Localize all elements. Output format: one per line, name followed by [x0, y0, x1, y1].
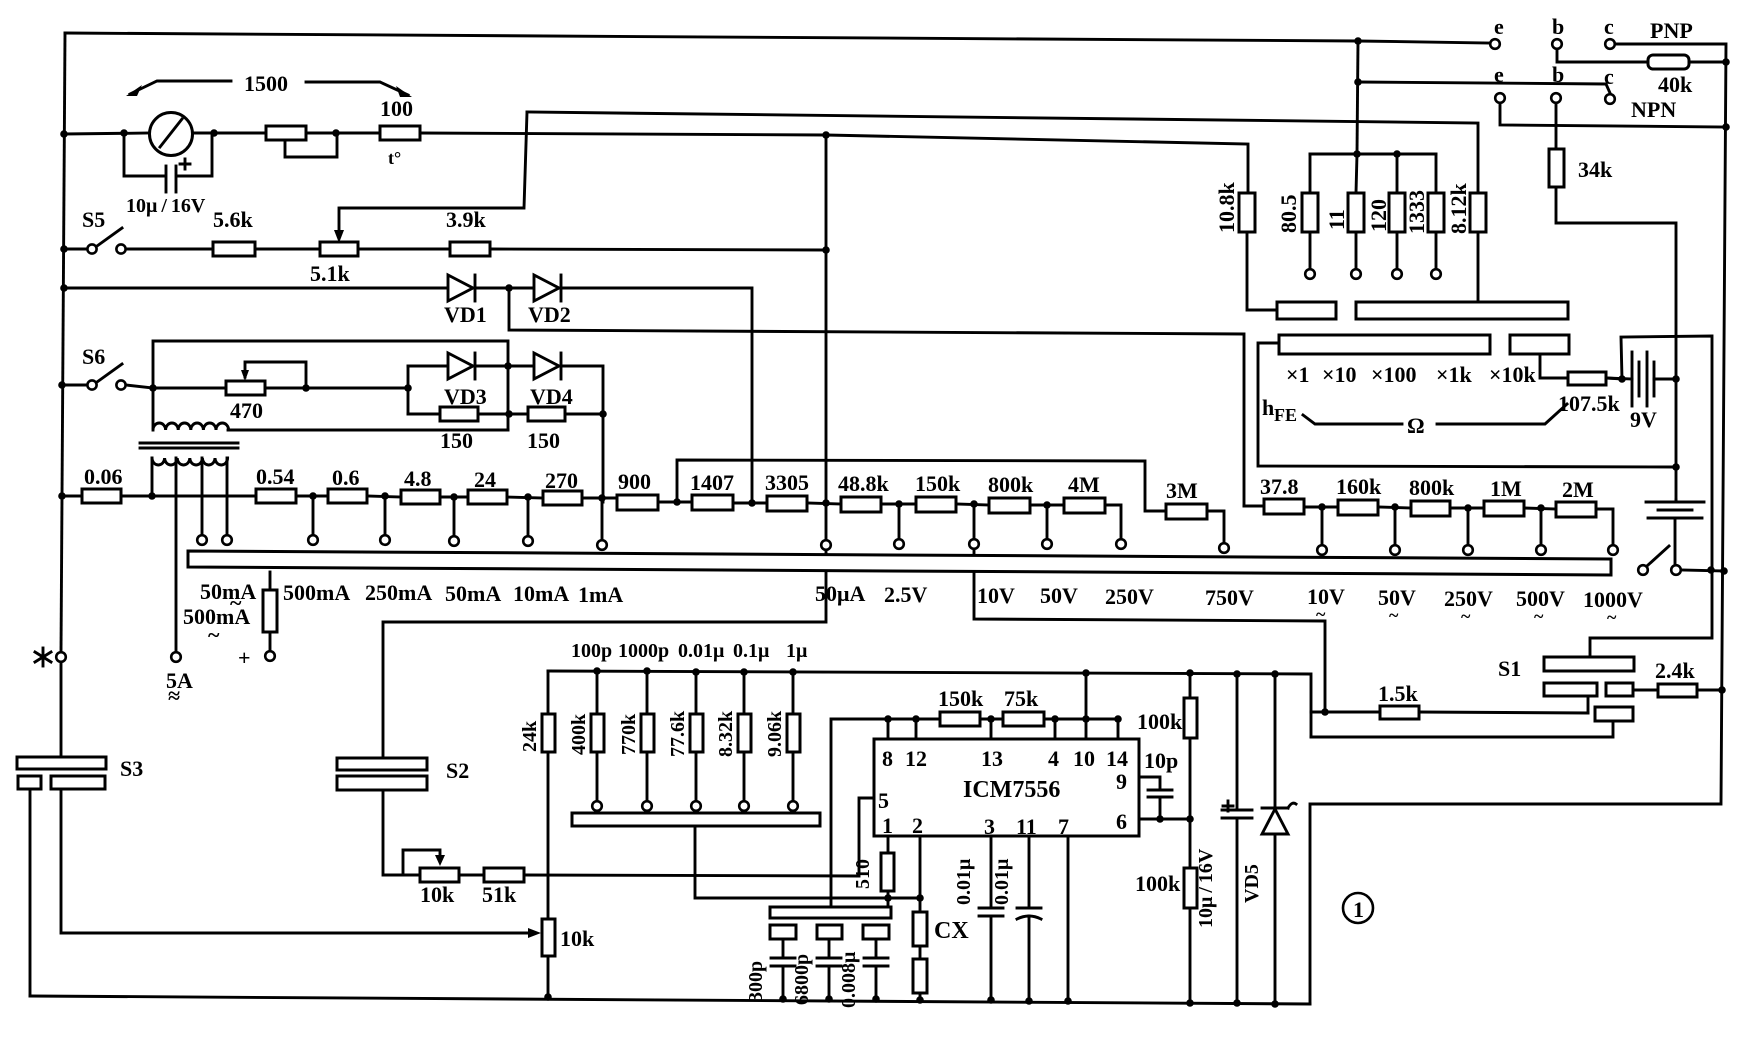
wire pin10 to rail: [1085, 673, 1088, 719]
resistor 1M: [1484, 476, 1556, 516]
node PNP socket e: [1490, 14, 1504, 49]
svg-text:ICM7556: ICM7556: [963, 777, 1060, 803]
svg-text:e: e: [1494, 62, 1504, 87]
label 500mA-AC: [183, 590, 250, 647]
node 250mA tap: [380, 496, 390, 545]
svg-text:0.54: 0.54: [256, 464, 295, 489]
svg-text:9V: 9V: [1630, 407, 1657, 432]
label 1500 bracket: [126, 71, 412, 97]
resistor 77.6k: [667, 672, 703, 811]
svg-text:150: 150: [527, 428, 560, 453]
svg-text:1000p: 1000p: [618, 640, 669, 662]
switch rotary common: [1638, 546, 1728, 575]
resistor 4.8: [401, 466, 468, 504]
resistor 48.8k: [838, 471, 916, 512]
svg-text:b: b: [1552, 14, 1564, 39]
label ACV range row: [1307, 584, 1643, 627]
svg-text:S1: S1: [1498, 656, 1521, 681]
svg-text:500mA: 500mA: [283, 580, 350, 605]
node 500mA tap: [308, 496, 318, 545]
svg-text:t°: t°: [388, 148, 401, 168]
svg-text:~: ~: [1534, 606, 1544, 626]
svg-text:×10: ×10: [1322, 362, 1357, 387]
svg-text:250mA: 250mA: [365, 580, 432, 605]
resistor 10.8k: [1214, 182, 1277, 311]
svg-text:150: 150: [440, 428, 473, 453]
contact CX socket pin2: [913, 836, 969, 1000]
svg-text:4M: 4M: [1068, 472, 1100, 497]
label cap range row: [571, 640, 808, 662]
resistor 100 t-deg: [380, 96, 420, 168]
svg-text:150k: 150k: [915, 471, 961, 496]
svg-text:VD5: VD5: [1241, 864, 1263, 903]
svg-text:8.12k: 8.12k: [1446, 183, 1471, 235]
svg-text:14: 14: [1106, 746, 1128, 771]
svg-text:770k: 770k: [618, 713, 640, 755]
wire pin8 to CX bar: [831, 719, 888, 907]
resistor 120: [1366, 154, 1405, 279]
svg-text:100p: 100p: [571, 640, 612, 662]
transformer T1 core: [140, 443, 238, 448]
transformer T1 secondary: [152, 458, 228, 465]
node top pin bus junctions: [884, 715, 1122, 723]
svg-text:FE: FE: [1274, 405, 1297, 425]
svg-text:10: 10: [1073, 746, 1095, 771]
diode VD5: [1241, 674, 1296, 1004]
resistor 800k: [988, 472, 1064, 513]
capacitor 0.01u pin11: [991, 836, 1041, 1001]
contact 6800p: [817, 925, 842, 958]
resistor 24k: [519, 671, 555, 919]
node timing rail junctions: [593, 667, 1279, 678]
resistor 150 shunt VD3: [408, 366, 528, 453]
svg-text:11: 11: [1324, 209, 1349, 230]
svg-text:1407: 1407: [690, 470, 734, 495]
resistor 3.9k: [446, 207, 830, 256]
svg-text:0.01μ: 0.01μ: [953, 858, 975, 905]
resistor 4M: [1064, 472, 1121, 539]
resistor 0.06: [58, 464, 256, 503]
switch S5: [60, 207, 213, 254]
svg-text:~: ~: [1607, 607, 1617, 627]
resistor 37.8: [1244, 474, 1338, 514]
resistor 510: [852, 836, 894, 907]
capacitor 300p: [745, 958, 795, 1002]
resistor 9.06k: [764, 672, 800, 811]
svg-text:5.1k: 5.1k: [310, 261, 351, 286]
resistor 3M: [1166, 478, 1224, 543]
node PNP socket c: [1604, 14, 1615, 49]
capacitor 0.01u pin3: [953, 836, 1003, 1000]
svg-text:80.5: 80.5: [1276, 195, 1301, 234]
svg-text:150k: 150k: [938, 686, 984, 711]
rotary wafer S1 mid-left: [1544, 683, 1597, 713]
svg-text:~: ~: [1389, 605, 1399, 625]
rotary wafer cap select: [572, 813, 920, 902]
resistor 500mA shunt vertical: [238, 572, 277, 670]
svg-text:c: c: [1604, 64, 1614, 89]
capacitor 10u/16V supply: [1195, 674, 1252, 1003]
diode VD2: [528, 275, 752, 503]
svg-text:10V: 10V: [1307, 584, 1345, 609]
resistor 107.5k: [1558, 372, 1626, 416]
wire S3 to 10k wiper: [61, 789, 541, 938]
svg-text:1M: 1M: [1490, 476, 1522, 501]
resistor 900: [617, 469, 692, 510]
svg-text:100: 100: [380, 96, 413, 121]
resistor 1.5k: [1321, 681, 1588, 719]
wire S3 to bottom rail: [29, 789, 32, 996]
resistor 270: [543, 468, 617, 505]
contact 0.008u: [863, 925, 889, 958]
svg-text:470: 470: [230, 398, 263, 423]
svg-text:10mA: 10mA: [513, 581, 569, 606]
wire bottom rail: [30, 996, 1310, 1004]
svg-text:10μ / 16V: 10μ / 16V: [126, 195, 206, 217]
svg-text:120: 120: [1366, 199, 1391, 232]
svg-text:0.008μ: 0.008μ: [838, 951, 860, 1008]
wire pin7 to rail: [1067, 836, 1070, 1001]
svg-text:S5: S5: [82, 207, 105, 232]
resistor 11: [1324, 154, 1364, 279]
resistor 100k lower: [1135, 819, 1197, 1003]
potentiometer 470: [153, 362, 412, 423]
wire U1 top pin bus: [888, 719, 1118, 739]
wire secondary tap2 to 5A: [171, 458, 181, 662]
resistor 150k timing: [938, 686, 984, 726]
svg-text:b: b: [1552, 62, 1564, 87]
svg-text:VD3: VD3: [444, 384, 487, 409]
svg-text:2M: 2M: [1562, 477, 1594, 502]
wire meter row: [64, 133, 1248, 193]
svg-text:10V: 10V: [977, 583, 1015, 608]
svg-text:1μ: 1μ: [786, 640, 808, 662]
node NPN socket b: [1551, 62, 1564, 149]
svg-text:9.06k: 9.06k: [764, 710, 786, 757]
resistor 5.6k: [213, 207, 320, 256]
wire secondary tap1: [148, 458, 156, 500]
diode VD4: [530, 353, 603, 502]
rotary wafer S1 top: [1498, 656, 1634, 681]
resistor 770k: [618, 671, 654, 811]
svg-text:×1: ×1: [1286, 362, 1310, 387]
transformer T1 primary: [153, 423, 508, 430]
svg-text:750V: 750V: [1205, 585, 1254, 610]
svg-text:0.1μ: 0.1μ: [733, 640, 770, 662]
potentiometer 5.1k: [310, 242, 450, 286]
node 50mA tap: [449, 497, 459, 546]
resistor 400k: [568, 671, 604, 811]
label 5A terminal: [166, 668, 193, 708]
svg-text:34k: 34k: [1578, 157, 1613, 182]
node 250VAC tap: [1463, 508, 1473, 555]
resistor 51k: [482, 798, 874, 907]
svg-text:5.6k: 5.6k: [213, 207, 254, 232]
node 10VAC tap: [1317, 507, 1327, 555]
svg-text:+: +: [238, 645, 251, 670]
svg-text:×100: ×100: [1371, 362, 1417, 387]
svg-text:50μA: 50μA: [815, 581, 865, 606]
svg-text:2.4k: 2.4k: [1655, 658, 1696, 683]
rotary wafer bank left: [1277, 302, 1336, 319]
wire line-A to 8.12k: [341, 112, 1478, 208]
svg-text:≈: ≈: [168, 683, 180, 708]
svg-text:VD1: VD1: [444, 302, 487, 327]
wire secondary tap4: [222, 458, 232, 545]
rotary wafer bank right: [1356, 302, 1568, 319]
wire timing rail: [548, 671, 1325, 737]
svg-text:37.8: 37.8: [1260, 474, 1299, 499]
label 10u/16V: [126, 195, 206, 217]
resistor zero-adjust rheostat: [266, 126, 337, 157]
rotary wafer ohms small: [1510, 335, 1569, 378]
resistor 0.6: [328, 465, 401, 503]
label NPN: [1631, 97, 1676, 122]
resistor 800k AC: [1409, 475, 1484, 516]
wire VD1 row from left border: [60, 284, 448, 292]
svg-text:×1k: ×1k: [1436, 362, 1473, 387]
resistor 100k upper: [1137, 673, 1197, 819]
node e-b junction vertical: [1354, 37, 1362, 154]
resistor 34k: [1549, 149, 1680, 500]
switch S6: [58, 344, 157, 392]
rotary wafer S1 bottom: [1311, 707, 1633, 737]
svg-text:c: c: [1604, 14, 1614, 39]
node 500VAC tap: [1536, 508, 1546, 555]
svg-text:13: 13: [981, 746, 1003, 771]
label multiplier row: [1286, 362, 1537, 387]
svg-text:100k: 100k: [1137, 709, 1183, 734]
svg-text:1mA: 1mA: [578, 582, 623, 607]
resistor 75k timing: [1003, 686, 1044, 726]
node bottom rail junctions: [544, 993, 1279, 1008]
svg-text:24k: 24k: [519, 720, 541, 752]
svg-text:1333: 1333: [1404, 190, 1429, 234]
wire right border: [1310, 44, 1726, 1004]
resistor 1333: [1404, 154, 1444, 279]
node NPN socket e: [1494, 62, 1730, 131]
svg-text:3.9k: 3.9k: [446, 207, 487, 232]
svg-text:50V: 50V: [1040, 583, 1078, 608]
svg-text:VD4: VD4: [530, 384, 573, 409]
node meter row junctions: [60, 129, 830, 139]
label ohms symbol: [1407, 413, 1425, 438]
potentiometer 10k vertical: [542, 919, 595, 997]
svg-text:50mA: 50mA: [200, 579, 256, 604]
node 50VAC tap: [1390, 507, 1400, 555]
wire left border: [61, 33, 65, 651]
svg-text:40k: 40k: [1658, 72, 1693, 97]
svg-text:2: 2: [912, 813, 923, 838]
svg-text:24: 24: [474, 467, 496, 492]
wire pin6 feedback: [1139, 815, 1194, 823]
node 10mA tap: [523, 497, 533, 546]
wire bypass 900-1407 node to 3M: [677, 460, 1166, 511]
svg-text:270: 270: [545, 468, 578, 493]
capacitor 6800p: [791, 954, 841, 1005]
svg-text:800k: 800k: [988, 472, 1034, 497]
switch S3 wafer: [17, 648, 143, 789]
svg-text:510: 510: [852, 859, 874, 889]
wire S6 loop top: [153, 341, 508, 428]
svg-text:S2: S2: [446, 758, 469, 783]
svg-text:PNP: PNP: [1650, 18, 1693, 43]
resistor 160k: [1336, 474, 1411, 515]
svg-text:~: ~: [1461, 606, 1471, 626]
svg-text:CX: CX: [934, 918, 969, 944]
svg-text:0.06: 0.06: [84, 464, 123, 489]
wire VD1 cathode to AC divider: [509, 288, 1244, 506]
wire 5.1k wiper arrow: [334, 208, 344, 243]
svg-text:~: ~: [208, 622, 220, 647]
node 2.5V tap: [894, 504, 904, 549]
svg-text:S3: S3: [120, 756, 143, 781]
svg-text:1.5k: 1.5k: [1378, 681, 1419, 706]
svg-text:10k: 10k: [420, 882, 455, 907]
svg-text:2.5V: 2.5V: [884, 582, 928, 607]
svg-text:e: e: [1494, 14, 1504, 39]
contact 300p: [770, 925, 796, 958]
node 1mA tap: [597, 498, 607, 550]
resistor 80.5: [1276, 154, 1318, 279]
resistor 40k: [1648, 55, 1730, 97]
node 50uA tap: [821, 540, 831, 550]
svg-text:8.32k: 8.32k: [715, 710, 737, 757]
svg-text:0.6: 0.6: [332, 465, 360, 490]
capacitor 10u/16V meter bypass: [124, 133, 212, 192]
wire hFE bracket: [1303, 404, 1567, 424]
svg-text:Ω: Ω: [1407, 413, 1425, 438]
node 10V tap: [969, 539, 979, 549]
svg-text:8: 8: [882, 746, 893, 771]
svg-text:10μ / 16V: 10μ / 16V: [1195, 848, 1217, 928]
svg-text:11: 11: [1016, 814, 1037, 839]
diode VD3: [408, 353, 534, 409]
node 50V tap: [1042, 505, 1052, 549]
resistor 0.54: [256, 464, 328, 503]
svg-text:3M: 3M: [1166, 478, 1198, 503]
svg-text:1500: 1500: [244, 71, 288, 96]
svg-text:800k: 800k: [1409, 475, 1455, 500]
svg-text:6800p: 6800p: [791, 954, 813, 1005]
battery 9V: [1606, 352, 1676, 432]
resistor 24: [468, 467, 543, 504]
wire hFE box outline: [1258, 343, 1676, 467]
resistor 2M: [1556, 477, 1618, 555]
svg-text:48.8k: 48.8k: [838, 471, 890, 496]
capacitor 0.008u: [838, 951, 888, 1008]
wire secondary tap3: [197, 458, 207, 545]
label DCV range row: [815, 581, 1254, 610]
svg-text:VD2: VD2: [528, 302, 571, 327]
op-amp U1 ICM7556: [874, 739, 1139, 836]
node NPN socket c: [1604, 64, 1615, 104]
svg-text:900: 900: [618, 469, 651, 494]
svg-text:10k: 10k: [560, 926, 595, 951]
svg-text:10.8k: 10.8k: [1214, 182, 1239, 234]
wire 10V node to S1 feed: [974, 504, 1325, 712]
svg-text:4: 4: [1048, 746, 1059, 771]
svg-text:S6: S6: [82, 344, 105, 369]
switch S2 wafer: [337, 758, 469, 875]
capacitor 10p pin9: [1139, 748, 1178, 819]
svg-text:100k: 100k: [1135, 871, 1181, 896]
wire x826 vertical to S2: [383, 135, 826, 758]
svg-text:~: ~: [1316, 604, 1326, 624]
svg-text:3: 3: [984, 814, 995, 839]
meter M1: [150, 113, 193, 156]
node 250V tap: [1116, 539, 1126, 549]
svg-text:77.6k: 77.6k: [667, 710, 689, 757]
svg-text:51k: 51k: [482, 882, 517, 907]
svg-text:5: 5: [878, 788, 889, 813]
svg-text:0.01μ: 0.01μ: [991, 858, 1013, 905]
rotary wafer S1 mid-right: [1606, 683, 1658, 696]
resistor 150k: [915, 471, 989, 512]
potentiometer 10k horizontal: [403, 850, 484, 907]
svg-text:50mA: 50mA: [445, 581, 501, 606]
svg-text:×10k: ×10k: [1489, 362, 1537, 387]
node PNP socket b: [1552, 14, 1648, 62]
resistor 8.12k: [1446, 183, 1486, 303]
wire left border lower segment: [60, 663, 63, 757]
label mA range row: [200, 579, 623, 607]
svg-text:0.01μ: 0.01μ: [678, 640, 725, 662]
svg-text:300p: 300p: [745, 961, 767, 1002]
svg-text:12: 12: [905, 746, 927, 771]
svg-text:9: 9: [1116, 769, 1127, 794]
resistor 8.32k: [715, 672, 751, 811]
label hFE: [1262, 395, 1297, 425]
svg-text:3305: 3305: [765, 470, 809, 495]
svg-text:h: h: [1262, 395, 1274, 420]
svg-text:6: 6: [1116, 809, 1127, 834]
node 750V tap: [1219, 543, 1229, 553]
diode VD1: [444, 275, 534, 327]
svg-text:4.8: 4.8: [404, 466, 432, 491]
wire NPN c feed: [1358, 82, 1610, 93]
svg-text:400k: 400k: [568, 713, 590, 755]
svg-text:NPN: NPN: [1631, 97, 1676, 122]
svg-text:160k: 160k: [1336, 474, 1382, 499]
wire top border to transistor socket e: [65, 33, 1489, 43]
wire bank top rail: [1310, 150, 1436, 158]
resistor 150 shunt VD4: [527, 407, 607, 453]
svg-text:1: 1: [882, 813, 893, 838]
label circled 1: [1343, 893, 1373, 923]
label PNP: [1650, 18, 1693, 43]
rotary wafer ohms range: [1279, 335, 1490, 354]
svg-text:75k: 75k: [1004, 686, 1039, 711]
rotary wafer CX select: [770, 907, 891, 918]
resistor 1407: [690, 470, 767, 510]
label U1 pin numbers bottom: [878, 769, 1127, 839]
resistor 2.4k: [1655, 658, 1726, 697]
rotary switch wafer main bar: [188, 551, 1611, 575]
wire ohms node to S1 wafer feed: [1590, 336, 1712, 657]
svg-text:250V: 250V: [1105, 584, 1154, 609]
resistor 3305: [765, 470, 841, 511]
battery 1.5V cell: [1646, 500, 1704, 564]
svg-text:1: 1: [1353, 897, 1364, 922]
svg-text:10p: 10p: [1144, 748, 1178, 773]
label U1 pin numbers top: [882, 746, 1128, 771]
